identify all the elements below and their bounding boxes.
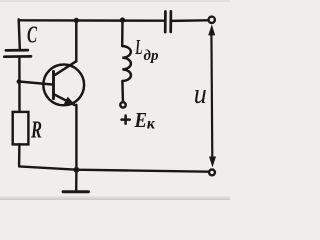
terminal output top xyxy=(209,17,215,23)
wire emitter vertical xyxy=(75,105,77,170)
wire inductor branch upper xyxy=(121,20,124,46)
capacitor C1 value C upper plate xyxy=(6,49,28,52)
node junction base xyxy=(17,79,22,84)
inductor L value Ldr coil arcs xyxy=(122,46,131,81)
transistor VT1 collector diagonal xyxy=(54,61,77,75)
svg-text:к: к xyxy=(147,116,156,133)
svg-text:R: R xyxy=(30,118,42,144)
paper background xyxy=(0,0,230,200)
node junction top collector xyxy=(74,18,79,23)
capacitor C1 lower plate xyxy=(4,55,31,58)
transistor VT1 emitter arrowhead xyxy=(64,97,76,106)
transistor VT1 emitter diagonal xyxy=(54,94,75,105)
node junction top inductor xyxy=(120,17,125,22)
wire top right (capacitor to output terminal) xyxy=(172,19,208,22)
voltage u measurement line xyxy=(210,30,213,159)
wire top horizontal (left corner to output capacitor) xyxy=(19,19,165,22)
plus sign of Ek xyxy=(122,116,130,124)
wire ground stub xyxy=(75,170,78,191)
wire bottom rail xyxy=(19,166,209,171)
transistor VT1 base bar xyxy=(52,71,55,98)
capacitor C2 output right plate xyxy=(169,11,172,32)
transistor VT1 body circle xyxy=(43,65,84,106)
svg-text:u: u xyxy=(194,78,207,110)
wire left vertical lower (resistor R to bottom rail) xyxy=(18,144,21,165)
svg-text:E: E xyxy=(134,108,147,132)
wire collector vertical xyxy=(75,20,77,61)
resistor R body xyxy=(13,112,29,144)
svg-text:L: L xyxy=(135,35,143,59)
node junction bottom emitter xyxy=(74,167,80,173)
svg-text:др: др xyxy=(144,48,159,64)
terminal output bottom xyxy=(209,170,215,176)
wire left vertical upper (corner to capacitor C) xyxy=(19,19,20,49)
wire base lead xyxy=(19,82,54,85)
terminal Ek supply xyxy=(120,102,125,107)
capacitor C2 output left plate xyxy=(164,12,167,33)
voltage u arrowhead up xyxy=(208,24,215,35)
svg-text:C: C xyxy=(27,23,38,49)
ground bar xyxy=(63,190,88,193)
wire left vertical middle (capacitor C to resistor R) xyxy=(18,58,21,112)
voltage u arrowhead down xyxy=(209,157,216,168)
wire inductor to Ek terminal xyxy=(121,81,124,101)
